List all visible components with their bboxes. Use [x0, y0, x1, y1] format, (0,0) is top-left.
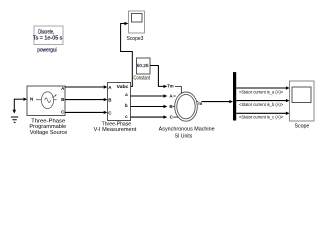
svg-text:SI Units: SI Units [175, 134, 193, 140]
svg-text:Ts = 1e-05 s: Ts = 1e-05 s [33, 35, 63, 41]
svg-text:A: A [169, 94, 173, 99]
svg-text:b: b [125, 103, 128, 108]
svg-text:<Stator current is_a (A)>: <Stator current is_a (A)> [239, 89, 283, 94]
svg-text:B: B [169, 104, 173, 109]
svg-text:Programmable: Programmable [29, 124, 66, 130]
svg-text:powergui: powergui [37, 47, 57, 53]
svg-text:<Stator current is_c (A)>: <Stator current is_c (A)> [239, 115, 283, 120]
svg-text:<Stator current is_b (A)>: <Stator current is_b (A)> [239, 102, 283, 107]
svg-text:50.25: 50.25 [137, 63, 149, 68]
svg-text:Vabc: Vabc [117, 84, 130, 89]
svg-text:N: N [30, 97, 33, 102]
svg-text:Tm: Tm [167, 84, 173, 89]
svg-text:Asynchronous Machine: Asynchronous Machine [159, 127, 215, 133]
svg-text:C: C [170, 114, 174, 119]
svg-text:Constant: Constant [134, 76, 151, 82]
svg-text:Scope: Scope [295, 123, 310, 129]
svg-text:Voltage Source: Voltage Source [30, 130, 68, 136]
svg-text:Scope3: Scope3 [127, 36, 144, 42]
svg-text:V-I Measurement: V-I Measurement [94, 127, 137, 133]
